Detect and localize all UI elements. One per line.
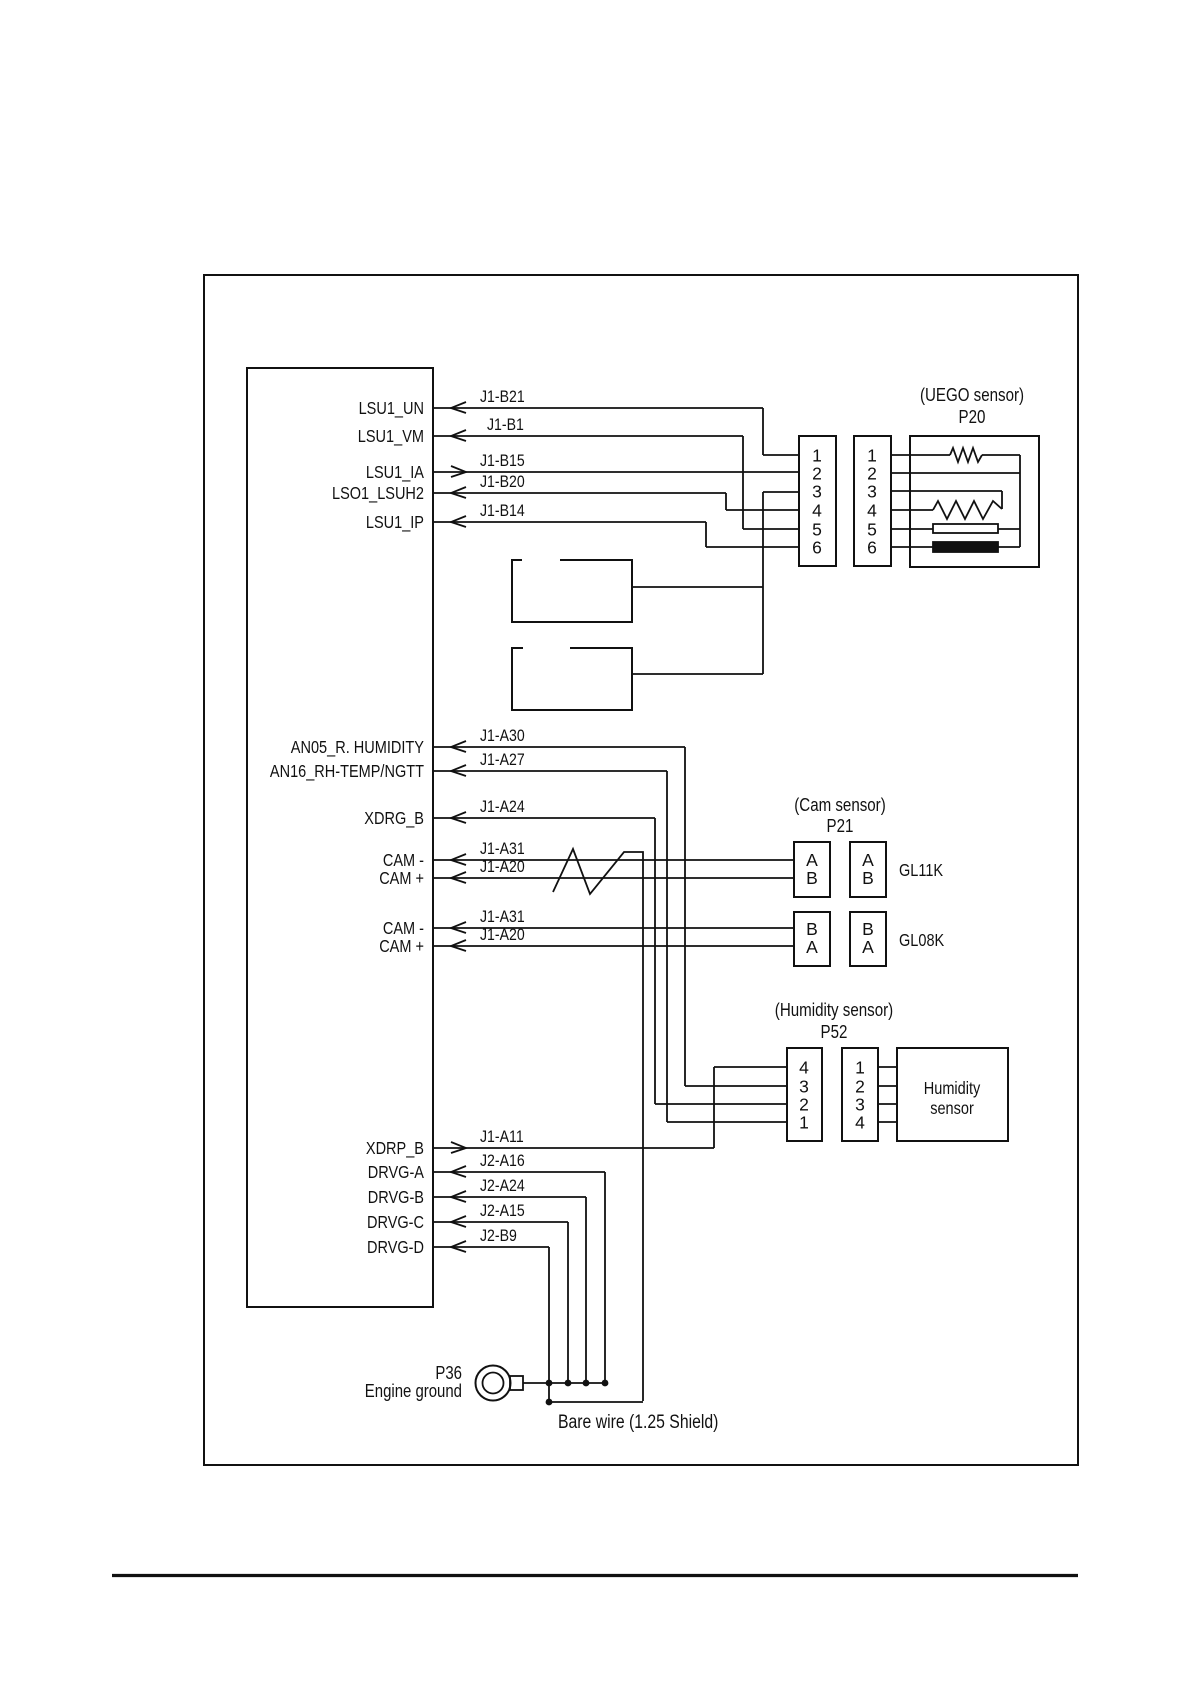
wire DRVG-D to ground [433, 1246, 549, 1248]
svg-text:J1-A27: J1-A27 [480, 750, 525, 769]
internal common wire [1019, 455, 1021, 547]
arrow J1-A31 [451, 922, 466, 933]
connector P21 half A (GL11K) [794, 842, 830, 897]
sense resistor R2 (pin4) [910, 509, 933, 511]
connector P21 half A (GL08K) [794, 912, 830, 966]
svg-text:B: B [862, 919, 874, 939]
wire LSU1_UN to P20 pin1 [433, 407, 763, 409]
svg-text:4: 4 [867, 501, 877, 521]
arrow J2-A24 [451, 1191, 466, 1202]
svg-text:sensor: sensor [930, 1098, 974, 1118]
connector P21 half B (GL08K) [850, 912, 886, 966]
svg-text:CAM -: CAM - [383, 850, 424, 870]
arrow J1-A24 [451, 812, 466, 823]
svg-text:B: B [806, 919, 818, 939]
arrow J1-A11 [451, 1142, 466, 1153]
stub wires P52 B to sensor [878, 1066, 897, 1068]
svg-text:XDRG_B: XDRG_B [364, 808, 424, 829]
arrow J1-A27 [451, 765, 466, 776]
svg-text:2: 2 [855, 1077, 865, 1097]
twisted pair symbol with shield wire [553, 849, 643, 1401]
svg-text:6: 6 [812, 538, 822, 558]
connector P20 half B [854, 436, 891, 566]
svg-text:DRVG-A: DRVG-A [368, 1162, 424, 1182]
arrow J2-A15 [451, 1216, 466, 1227]
shield box 1 [512, 560, 632, 622]
bare shield wire bus [549, 1401, 643, 1403]
wire AN05 to P52 pin3 [433, 746, 685, 748]
arrow J1-A31 [451, 854, 466, 865]
svg-text:DRVG-B: DRVG-B [368, 1187, 424, 1207]
arrow J1-B14 [451, 516, 466, 527]
svg-text:2: 2 [799, 1095, 809, 1115]
stub wires P20 B to sensor [891, 454, 910, 456]
svg-text:LSU1_IP: LSU1_IP [366, 512, 424, 533]
humidity sensor body box [897, 1048, 1008, 1141]
svg-text:3: 3 [855, 1095, 865, 1115]
svg-text:2: 2 [812, 464, 822, 484]
svg-text:6: 6 [867, 538, 877, 558]
UEGO sensor body box [910, 436, 1039, 567]
pump cell element (pin5) [910, 528, 933, 530]
svg-text:Bare wire (1.25 Shield): Bare wire (1.25 Shield) [558, 1412, 718, 1433]
connector P20 half A [799, 436, 836, 566]
svg-text:3: 3 [812, 482, 822, 502]
svg-text:J1-A24: J1-A24 [480, 797, 525, 816]
arrow J2-A16 [451, 1166, 466, 1177]
wire CAM- pair1 [433, 859, 794, 861]
svg-text:4: 4 [799, 1058, 809, 1078]
svg-text:J1-B14: J1-B14 [480, 501, 525, 520]
svg-text:P36: P36 [435, 1363, 462, 1383]
svg-text:2: 2 [867, 464, 877, 484]
svg-text:A: A [862, 850, 874, 870]
svg-text:J1-B21: J1-B21 [480, 387, 525, 406]
svg-text:3: 3 [867, 482, 877, 502]
wire LSU1_IP to P20 pin6 [433, 521, 706, 523]
wire LSU1_IA to P20 pin2 [433, 471, 799, 473]
svg-text:J2-A16: J2-A16 [480, 1151, 525, 1170]
wire DRVG-C to ground [433, 1221, 568, 1223]
svg-text:J1-A31: J1-A31 [480, 839, 525, 858]
wire P20 pin3 shield net [763, 491, 799, 493]
svg-text:J1-A31: J1-A31 [480, 907, 525, 926]
arrow J1-B21 [451, 402, 466, 413]
svg-text:AN16_RH-TEMP/NGTT: AN16_RH-TEMP/NGTT [270, 761, 424, 782]
svg-text:B: B [806, 868, 818, 888]
arrow J1-A30 [451, 741, 466, 752]
wire DRVG-A to ground [433, 1171, 605, 1173]
svg-text:P20: P20 [959, 407, 986, 427]
arrow J1-B1 [451, 430, 466, 441]
svg-text:J1-B15: J1-B15 [480, 451, 525, 470]
svg-text:LSU1_UN: LSU1_UN [359, 398, 424, 419]
wire LSU1_VM to P20 pin5 [433, 435, 743, 437]
svg-text:P21: P21 [827, 816, 854, 836]
ground bus wire [523, 1382, 605, 1384]
svg-text:Engine ground: Engine ground [365, 1381, 462, 1401]
svg-text:P52: P52 [821, 1022, 848, 1042]
shield box 2 [512, 648, 632, 710]
svg-text:DRVG-C: DRVG-C [367, 1212, 424, 1232]
svg-text:LSO1_LSUH2: LSO1_LSUH2 [332, 483, 424, 504]
svg-text:5: 5 [867, 520, 877, 540]
svg-text:CAM +: CAM + [379, 936, 424, 956]
arrow J1-B15 [451, 466, 466, 477]
wire XDRP_B to P52 pin4 [433, 1147, 714, 1149]
svg-text:4: 4 [855, 1113, 865, 1133]
wire XDRG_B to P52 pin2 [433, 817, 655, 819]
arrow J1-A20 [451, 872, 466, 883]
arrow J1-A20 [451, 940, 466, 951]
svg-text:J1-A30: J1-A30 [480, 726, 525, 745]
wire AN16 to P52 pin1 [433, 770, 667, 772]
svg-text:XDRP_B: XDRP_B [366, 1138, 424, 1159]
svg-text:LSU1_IA: LSU1_IA [366, 462, 424, 483]
wire shield box 1 to net [632, 586, 763, 588]
arrow J2-B9 [451, 1241, 466, 1252]
wire pin3 internal [910, 490, 1002, 492]
wire LSO1_LSUH2 to P20 pin4 [433, 492, 726, 494]
wire shield box 2 to net [632, 673, 763, 675]
connector P52 half B [842, 1048, 878, 1141]
wire DRVG-B to ground [433, 1196, 586, 1198]
svg-text:AN05_R. HUMIDITY: AN05_R. HUMIDITY [291, 737, 424, 758]
wire CAM- pair2 [433, 927, 794, 929]
svg-text:J2-A15: J2-A15 [480, 1201, 525, 1220]
svg-text:A: A [806, 850, 818, 870]
svg-text:GL11K: GL11K [899, 860, 943, 880]
svg-text:B: B [862, 868, 874, 888]
svg-text:J2-B9: J2-B9 [480, 1226, 517, 1245]
svg-text:1: 1 [867, 446, 877, 466]
svg-text:DRVG-D: DRVG-D [367, 1237, 424, 1257]
heater resistor R1 (pin1) [910, 454, 950, 456]
svg-text:J2-A24: J2-A24 [480, 1176, 525, 1195]
svg-text:(Humidity sensor): (Humidity sensor) [775, 1000, 893, 1020]
connector P21 half B (GL11K) [850, 842, 886, 897]
wire CAM+ pair1 [433, 877, 794, 879]
junction dots on ground bus [546, 1380, 553, 1387]
svg-text:(UEGO sensor): (UEGO sensor) [920, 385, 1024, 405]
wire pin2 internal [910, 472, 1020, 474]
svg-text:A: A [862, 937, 874, 957]
footer rule [112, 1574, 1078, 1577]
svg-text:A: A [806, 937, 818, 957]
svg-text:3: 3 [799, 1077, 809, 1097]
svg-text:4: 4 [812, 501, 822, 521]
ground ring terminal P36 [476, 1366, 511, 1401]
svg-text:1: 1 [812, 446, 822, 466]
svg-text:1: 1 [799, 1113, 809, 1133]
arrow J1-B20 [451, 487, 466, 498]
svg-text:(Cam sensor): (Cam sensor) [794, 795, 886, 815]
wire CAM+ pair2 [433, 945, 794, 947]
svg-text:CAM -: CAM - [383, 918, 424, 938]
svg-text:CAM +: CAM + [379, 868, 424, 888]
sense cell element (pin6) [910, 546, 933, 548]
connector P52 half A [787, 1048, 822, 1141]
svg-text:GL08K: GL08K [899, 930, 944, 950]
svg-text:J1-A11: J1-A11 [480, 1127, 524, 1146]
svg-text:J1-B1: J1-B1 [487, 415, 524, 434]
svg-text:1: 1 [855, 1058, 865, 1078]
ECU connector box U1 [247, 368, 433, 1307]
svg-text:LSU1_VM: LSU1_VM [358, 426, 424, 447]
svg-text:Humidity: Humidity [924, 1078, 981, 1098]
svg-text:J1-B20: J1-B20 [480, 472, 525, 491]
svg-text:5: 5 [812, 520, 822, 540]
